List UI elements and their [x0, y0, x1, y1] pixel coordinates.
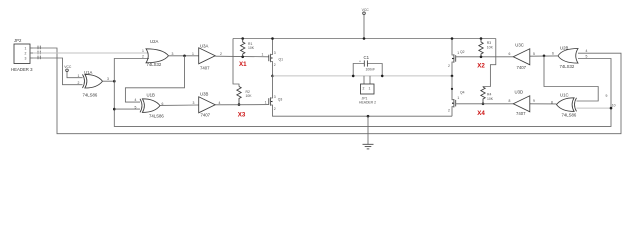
wire junction down and left to U1B pin4	[125, 56, 184, 102]
svg-text:HEADER 3: HEADER 3	[11, 67, 33, 72]
wire U2B out to U3C in	[530, 55, 558, 57]
svg-text:5: 5	[586, 55, 588, 59]
svg-text:U1B: U1B	[147, 92, 155, 97]
svg-text:74LS86: 74LS86	[83, 92, 98, 97]
svg-text:4: 4	[135, 98, 137, 102]
buffer U3C 7407 (mirrored)	[509, 42, 536, 70]
svg-text:7407: 7407	[517, 65, 527, 70]
node right bridge output	[451, 75, 454, 78]
svg-text:2: 2	[142, 55, 144, 59]
svg-text:1: 1	[265, 100, 267, 104]
svg-text:3: 3	[172, 52, 174, 56]
svg-text:HEADER 2: HEADER 2	[359, 101, 376, 105]
svg-text:4: 4	[586, 49, 588, 53]
svg-text:6: 6	[552, 52, 554, 56]
svg-text:5: 5	[135, 105, 137, 109]
connector JP2 HEADER 3	[11, 38, 33, 72]
svg-text:1: 1	[142, 49, 144, 53]
wire header pin1 to U2B pin4 outer loop	[33, 48, 621, 134]
wire X2 row Q2 gate to U3C out	[456, 56, 514, 58]
svg-text:74LS86: 74LS86	[562, 112, 577, 117]
wire Q2 drain to rail	[452, 39, 454, 56]
transistor Q4	[448, 91, 465, 113]
svg-text:2: 2	[78, 81, 80, 85]
node U1A out junction	[113, 80, 116, 83]
wire node up to U2A pin2	[114, 59, 149, 82]
svg-text:2: 2	[448, 64, 450, 68]
svg-text:9: 9	[606, 94, 608, 98]
svg-text:1: 1	[457, 51, 459, 55]
svg-text:VCC: VCC	[64, 65, 72, 69]
wire rail left end down to R2 top	[233, 39, 239, 87]
node bottom rail ground junction	[367, 115, 370, 118]
wire U1C pin10 input (gray)	[577, 107, 612, 109]
svg-text:74LS32: 74LS32	[147, 62, 162, 67]
wire junction down to U1C pin9	[544, 56, 598, 101]
buffer U3D 7407 (mirrored)	[509, 90, 536, 117]
buffer U3A 7407	[192, 43, 222, 70]
wire to U1B pin5	[114, 108, 140, 110]
svg-text:1: 1	[369, 87, 371, 91]
svg-text:U2B: U2B	[560, 45, 568, 50]
wire ticks on header nets	[38, 46, 40, 60]
svg-text:10K: 10K	[248, 46, 255, 50]
wire motor rail (gray)	[273, 75, 453, 77]
svg-text:X1: X1	[239, 61, 247, 68]
svg-text:U1A: U1A	[84, 70, 92, 75]
node U1B pin5 junction	[113, 108, 116, 111]
wire U1A output to node	[103, 80, 115, 82]
svg-text:U3D: U3D	[515, 90, 524, 95]
svg-text:+: +	[359, 60, 361, 64]
transistor Q1	[262, 51, 284, 67]
svg-text:7407: 7407	[201, 113, 211, 118]
power rail VCC top	[233, 38, 496, 40]
connector JP1 HEADER 2	[359, 76, 376, 105]
svg-text:Q2: Q2	[460, 50, 465, 54]
node left bridge output	[271, 75, 274, 78]
node Q4 drain pin dot	[451, 88, 453, 90]
wire U3A out to Q1 gate (X1 row)	[215, 55, 269, 58]
wire Q2 source to motor node	[452, 62, 454, 76]
wire U1B out to U3B in	[160, 104, 199, 106]
svg-text:1: 1	[262, 52, 264, 56]
op-amp U1B 74LS86 XOR	[135, 92, 165, 118]
svg-text:Q3: Q3	[278, 97, 283, 101]
svg-text:1: 1	[25, 47, 27, 51]
resistor R1 10K	[241, 37, 255, 57]
wire header pin3 to U1A pin2	[33, 58, 83, 85]
wire node down to U1B pin5 and bottom feedback	[114, 59, 611, 127]
svg-text:2: 2	[448, 109, 450, 113]
node R1 bottom junction	[241, 56, 244, 59]
svg-text:10K: 10K	[487, 97, 494, 101]
svg-text:4: 4	[219, 101, 221, 105]
node U2A out junction	[183, 55, 186, 58]
wire header pin2 to U2A pin1 (gray net)	[33, 52, 149, 54]
svg-text:10K: 10K	[487, 46, 494, 50]
svg-text:8: 8	[509, 99, 511, 103]
transistor Q3	[265, 95, 283, 111]
wire Q1 source to motor node	[271, 62, 273, 76]
svg-text:3: 3	[25, 57, 27, 61]
ground	[363, 116, 374, 149]
svg-text:Q4: Q4	[460, 91, 465, 95]
svg-text:X2: X2	[477, 63, 485, 70]
svg-text:C1: C1	[364, 55, 370, 60]
transistor Q2	[448, 50, 465, 68]
svg-text:1: 1	[457, 96, 459, 100]
wire Q1 drain to rail	[271, 39, 273, 55]
wire U1C out to U3D in	[530, 103, 557, 105]
svg-text:U2A: U2A	[150, 39, 158, 44]
svg-text:3: 3	[193, 101, 195, 105]
capacitor C1 100nF	[352, 55, 384, 77]
svg-text:U3C: U3C	[515, 42, 524, 47]
svg-text:JP2: JP2	[14, 38, 22, 43]
svg-text:R3: R3	[487, 41, 491, 45]
node pin10 junction	[610, 107, 613, 110]
svg-text:2: 2	[274, 107, 276, 111]
resistor R2 10K	[237, 87, 252, 106]
svg-text:3: 3	[274, 95, 276, 99]
wire X3 row to Q3 gate	[215, 104, 269, 106]
svg-text:10K: 10K	[246, 94, 253, 98]
wire X4 row Q4 gate to U3D out	[456, 103, 514, 105]
svg-text:U3B: U3B	[200, 92, 208, 97]
svg-text:VCC: VCC	[362, 8, 370, 12]
svg-text:2: 2	[220, 52, 222, 56]
svg-text:2: 2	[25, 52, 27, 56]
power VCC (left)	[64, 65, 82, 78]
svg-text:1: 1	[78, 74, 80, 78]
power VCC (top)	[362, 8, 370, 40]
or-gate U2B 74LS32 (mirrored)	[558, 49, 578, 64]
or-gate U2A 74LS32	[142, 39, 174, 67]
op-amp U1A 74LS86 XOR	[78, 70, 110, 98]
svg-text:3: 3	[274, 51, 276, 55]
node U2B out junction	[543, 55, 546, 58]
svg-text:7407: 7407	[200, 65, 210, 70]
wire Q4 source to bottom rail	[452, 107, 454, 117]
resistor R3 10K	[479, 37, 494, 57]
svg-text:5: 5	[533, 52, 535, 56]
resistor R4 10K	[481, 87, 494, 105]
svg-text:Q1: Q1	[279, 57, 284, 61]
op-amp U1C 74LS86 XOR (mirrored)	[557, 98, 577, 112]
svg-text:U1C: U1C	[560, 92, 569, 97]
svg-text:2: 2	[274, 63, 276, 67]
svg-text:6: 6	[509, 52, 511, 56]
svg-text:2: 2	[363, 87, 365, 91]
wire U2A out to U3A in	[169, 55, 200, 57]
svg-text:X3: X3	[238, 111, 246, 118]
svg-text:U3A: U3A	[200, 43, 208, 48]
wire Q3 source to bottom rail	[271, 105, 452, 116]
wire Q3 drain to motor node	[271, 76, 273, 98]
svg-text:1: 1	[192, 52, 194, 56]
wire rail right end down to R4 top	[483, 39, 496, 88]
svg-text:10: 10	[612, 103, 616, 107]
svg-text:74LS86: 74LS86	[149, 114, 164, 119]
svg-text:100nF: 100nF	[366, 68, 376, 72]
svg-text:74LS32: 74LS32	[560, 64, 575, 69]
svg-text:3: 3	[107, 77, 109, 81]
wire Q4 drain to motor node	[452, 76, 454, 100]
node R3 bottom junction	[480, 56, 483, 59]
buffer U3B 7407	[193, 92, 221, 118]
svg-text:9: 9	[533, 99, 535, 103]
svg-text:7407: 7407	[516, 111, 526, 116]
svg-text:X4: X4	[477, 110, 485, 117]
